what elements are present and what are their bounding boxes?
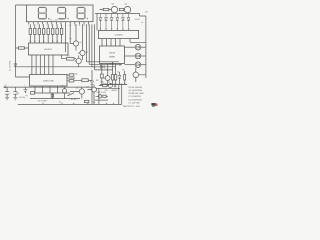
LED L3 [125,55,136,57]
diode D16 [114,84,117,87]
svg-text:.1: .1 [9,93,10,95]
logo mark [151,103,157,107]
resistor value row [30,37,62,39]
svg-text:Q1: Q1 [79,42,81,44]
resistor R14 [103,8,109,10]
U1 bottom wires to U2 [32,55,53,74]
wire top-left feed [16,5,30,77]
svg-text:11: 11 [74,25,76,27]
svg-text:5 6 7: 5 6 7 [61,85,65,87]
resistor R13 [82,79,88,82]
svg-text:Q1-Q4 2N3904: Q1-Q4 2N3904 [129,90,143,92]
resistor R17 [111,75,113,81]
resistor R6 [52,28,54,34]
U4 bottom stubs [102,62,120,70]
capacitor C1 [5,87,9,97]
transistor Q2 [80,50,85,55]
IC U4 box [100,46,125,64]
svg-text:R16 1k: R16 1k [109,64,115,66]
transistor Q6 [133,72,139,78]
svg-text:D8: D8 [122,70,124,72]
resistor R21 [103,84,107,87]
svg-text:6: 6 [51,25,52,27]
svg-text:e: e [48,37,49,39]
transistor Q8 [109,84,113,88]
svg-text:D1-D6 1N4148: D1-D6 1N4148 [129,87,143,89]
svg-text:+9V: +9V [145,12,149,14]
svg-text:1: 1 [28,25,29,27]
svg-text:2N2222: 2N2222 [112,90,118,92]
svg-text:100: 100 [75,74,78,76]
switch S1 [68,93,74,96]
resistor R20 block [101,74,104,78]
svg-text:R20: R20 [101,82,104,84]
bottom bus 4 [18,103,122,105]
battery B1 [23,87,27,93]
resistor R4 [43,28,45,34]
U2 bottom pins [35,86,58,93]
resistor R3 [38,28,40,34]
svg-text:9V: 9V [25,96,28,98]
transistor Q7 [92,87,97,92]
U2 pin numbers [31,72,53,74]
svg-text:* SEE TEXT T1 - 6.3V: * SEE TEXT T1 - 6.3V [122,106,140,108]
svg-text:6x: 6x [142,22,144,24]
svg-text:R1-R8 220 OHM: R1-R8 220 OHM [129,93,144,95]
transistor Q1 [73,41,78,46]
U4 pin numbers [102,44,121,46]
svg-text:5: 5 [47,25,48,27]
transistor Q10 [62,89,66,93]
LED D3 [110,14,113,31]
LED D2 [105,14,108,31]
svg-text:DL — 747: DL — 747 [49,20,57,22]
svg-text:C1 .1µF 50V: C1 .1µF 50V [129,102,141,104]
wires display right pins down [86,24,94,70]
LED L2 [125,46,136,48]
svg-text:D7: D7 [117,72,119,74]
diode D14 [118,75,121,78]
IC1 pin numbers top [29,41,62,43]
svg-text:CD4543: CD4543 [114,35,123,37]
resistor row wires [30,24,61,28]
svg-text:DL-747 RED: DL-747 RED [10,60,12,71]
component on mid vertical [51,94,53,97]
svg-text:C1: C1 [5,85,7,87]
digit 3 [77,7,85,18]
svg-text:+: + [24,84,25,86]
ground 2 [13,97,17,100]
bottom bus 2 [31,92,70,94]
IC U2 box [30,74,67,86]
long bus wire [16,66,97,68]
resistor R1 [29,28,31,34]
svg-text:R17: R17 [96,80,99,82]
svg-text:9V 4.7k .01µ: 9V 4.7k .01µ [97,92,107,94]
zener D15 [124,75,126,81]
svg-text:R22 10k: R22 10k [71,99,77,101]
op-amp U1 driver IC box [29,43,69,55]
svg-text:2: 2 [33,25,34,27]
LED D6 [127,14,130,31]
capacitor C2 [13,87,17,97]
right vertical wire [130,14,146,79]
svg-text:b: b [34,37,35,39]
wire right bus drop [96,14,98,31]
LED D1 [99,14,102,31]
top right bus [95,13,140,15]
LED L4 [125,64,136,66]
digit 1 [38,7,46,18]
bus ticks [43,103,114,105]
LED D5 [121,14,124,31]
resistor R18 [114,75,116,81]
LED D4 [116,14,119,31]
svg-text:D1-D6: D1-D6 [135,19,140,21]
svg-text:d: d [43,37,44,39]
svg-text:Q3: Q3 [112,4,114,6]
svg-text:h: h [61,37,62,39]
dp 3 [87,18,88,19]
U2 right pins [67,75,75,81]
resistor R15 [119,8,124,10]
transistor Q3 [111,6,117,12]
svg-text:ICM7217A: ICM7217A [43,80,54,83]
svg-text:13: 13 [83,25,85,27]
display bottom pins [29,22,89,25]
svg-text:12: 12 [79,25,81,27]
resistor R11 [69,74,74,76]
IC U3 box [99,30,139,38]
resistor R8 [60,28,62,34]
svg-text:Q6: Q6 [76,88,78,90]
resistor R5 [47,28,49,34]
transistor Q6 [79,89,84,94]
diode D7 on left wire [14,64,17,67]
ground 1 [5,97,9,100]
svg-text:10µ: 10µ [16,93,19,95]
LED L1 [98,95,101,98]
bottom bus 1 [4,86,92,88]
svg-text:C5: C5 [93,102,95,104]
transistor Q9 [105,76,110,81]
svg-text:Q4: Q4 [125,4,127,6]
svg-text:c: c [39,37,40,39]
U3 bottom pins [102,39,120,46]
resistor R12 [69,80,74,82]
svg-text:4: 4 [42,25,43,27]
resistor R23 [85,100,89,102]
diode D12 [100,65,104,68]
resistor R19 [31,92,35,95]
resistor R2 [34,28,36,34]
svg-text:IC1 CD4511B: IC1 CD4511B [129,96,142,98]
diode D13 [90,81,93,84]
svg-text:R9: R9 [70,39,72,41]
dp 2 [67,18,68,19]
svg-text:S1 COUNT: S1 COUNT [38,101,48,103]
transistor Q4 [124,6,130,12]
svg-text:TIMER: TIMER [109,57,116,59]
svg-text:S2: S2 [59,102,61,104]
bottom mid bus [100,84,127,86]
svg-text:a: a [30,37,31,39]
svg-text:C2 100µ: C2 100µ [19,97,25,99]
svg-text:LM555: LM555 [109,53,116,55]
dp 1 [48,18,49,19]
display pin numbers [28,25,89,27]
bottom bus 3 [30,93,80,99]
bus mid-bottom [96,88,121,104]
svg-text:ALL RES 1/4W 5%: ALL RES 1/4W 5% [110,83,127,86]
resistor R7 [56,28,58,34]
svg-text:3: 3 [38,25,39,27]
bus terminal arrow [4,86,6,88]
pin numbers above U3 [100,29,130,31]
digit 2 [58,7,66,18]
svg-text:IC2 ICM7217A: IC2 ICM7217A [129,98,143,101]
svg-text:CD4511: CD4511 [44,49,53,51]
transistor Q5 [76,58,81,63]
notes text block [110,83,144,108]
display module DS1 box [27,5,94,22]
svg-text:g: g [57,37,58,39]
resistor R9 feeding U1 [16,47,29,49]
